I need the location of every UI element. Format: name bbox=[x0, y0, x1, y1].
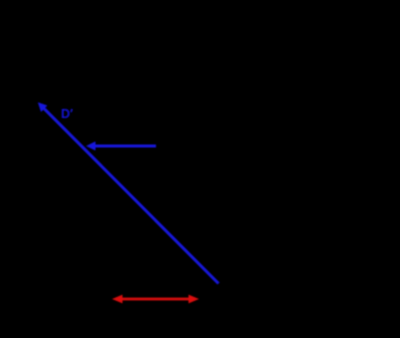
svg-text:D′: D′ bbox=[61, 107, 73, 121]
